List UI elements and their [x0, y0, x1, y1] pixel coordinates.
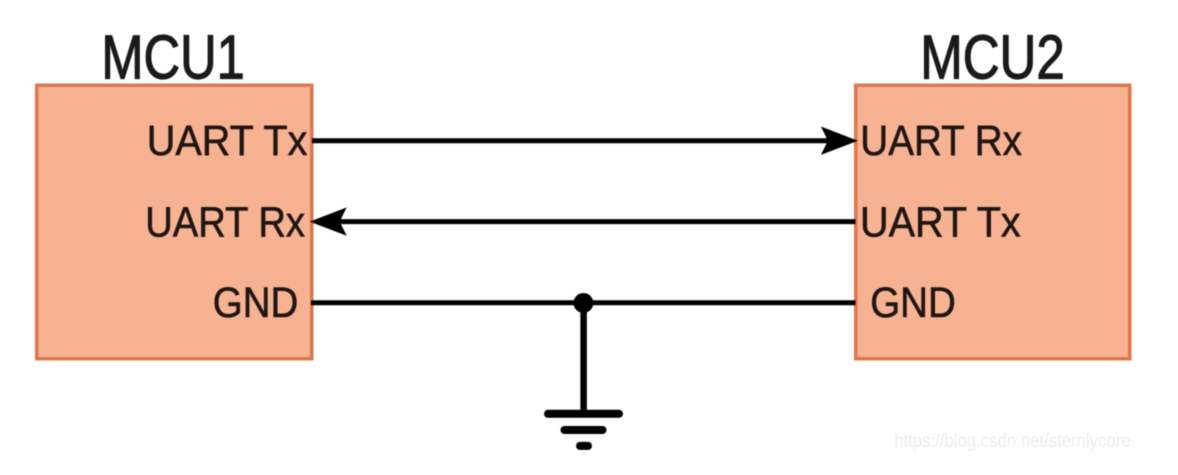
svg-text:https://blog.csdn.net/sternlyc: https://blog.csdn.net/sternlycore	[894, 431, 1130, 452]
svg-text:MCU1: MCU1	[101, 24, 244, 93]
svg-text:UART Tx: UART Tx	[147, 117, 308, 165]
MCU2 box	[856, 85, 1130, 359]
svg-text:UART Rx: UART Rx	[145, 199, 305, 247]
ground symbol bar3	[580, 442, 588, 450]
svg-text:UART Tx: UART Tx	[860, 199, 1021, 247]
arrowhead into MCU1 UART Rx	[310, 207, 347, 235]
ground symbol bar1	[548, 410, 619, 418]
MCU1 box	[37, 85, 312, 359]
svg-text:MCU2: MCU2	[920, 24, 1065, 93]
ground symbol bar2	[565, 426, 603, 434]
svg-text:GND: GND	[213, 279, 298, 327]
svg-text:GND: GND	[870, 279, 956, 327]
wire GND to GND	[311, 300, 856, 305]
arrowhead into MCU2 UART Rx	[821, 127, 858, 155]
wire Tx1 to Rx2	[312, 138, 829, 143]
junction dot	[573, 293, 593, 313]
svg-text:UART Rx: UART Rx	[860, 117, 1022, 165]
wire Tx2 to Rx1	[339, 219, 856, 224]
wire junction to ground	[580, 303, 587, 411]
